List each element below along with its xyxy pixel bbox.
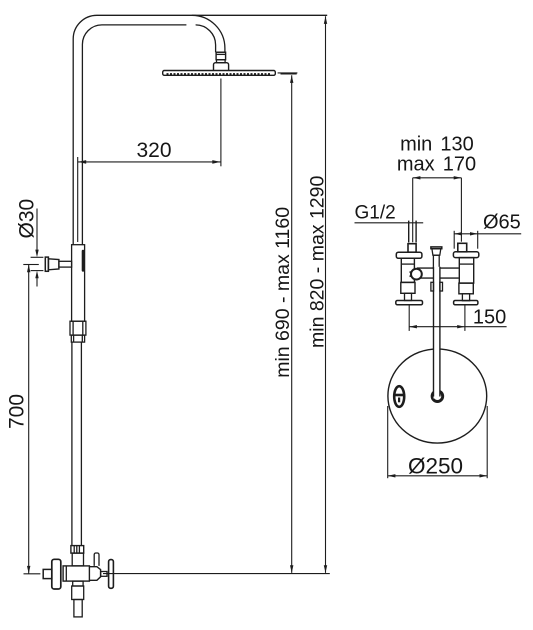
svg-text:700: 700 [6,394,29,429]
svg-text:min 690 - max 1160: min 690 - max 1160 [272,207,294,378]
svg-text:Ø65: Ø65 [483,212,521,234]
svg-text:min 820 - max 1290: min 820 - max 1290 [307,176,329,348]
svg-text:150: 150 [473,306,506,328]
svg-text:Ø250: Ø250 [408,453,463,478]
svg-text:Ø30: Ø30 [16,199,39,239]
svg-text:max 170: max 170 [397,153,476,175]
svg-text:G1/2: G1/2 [355,202,396,223]
svg-text:min 130: min 130 [400,133,474,155]
svg-text:320: 320 [136,139,171,162]
